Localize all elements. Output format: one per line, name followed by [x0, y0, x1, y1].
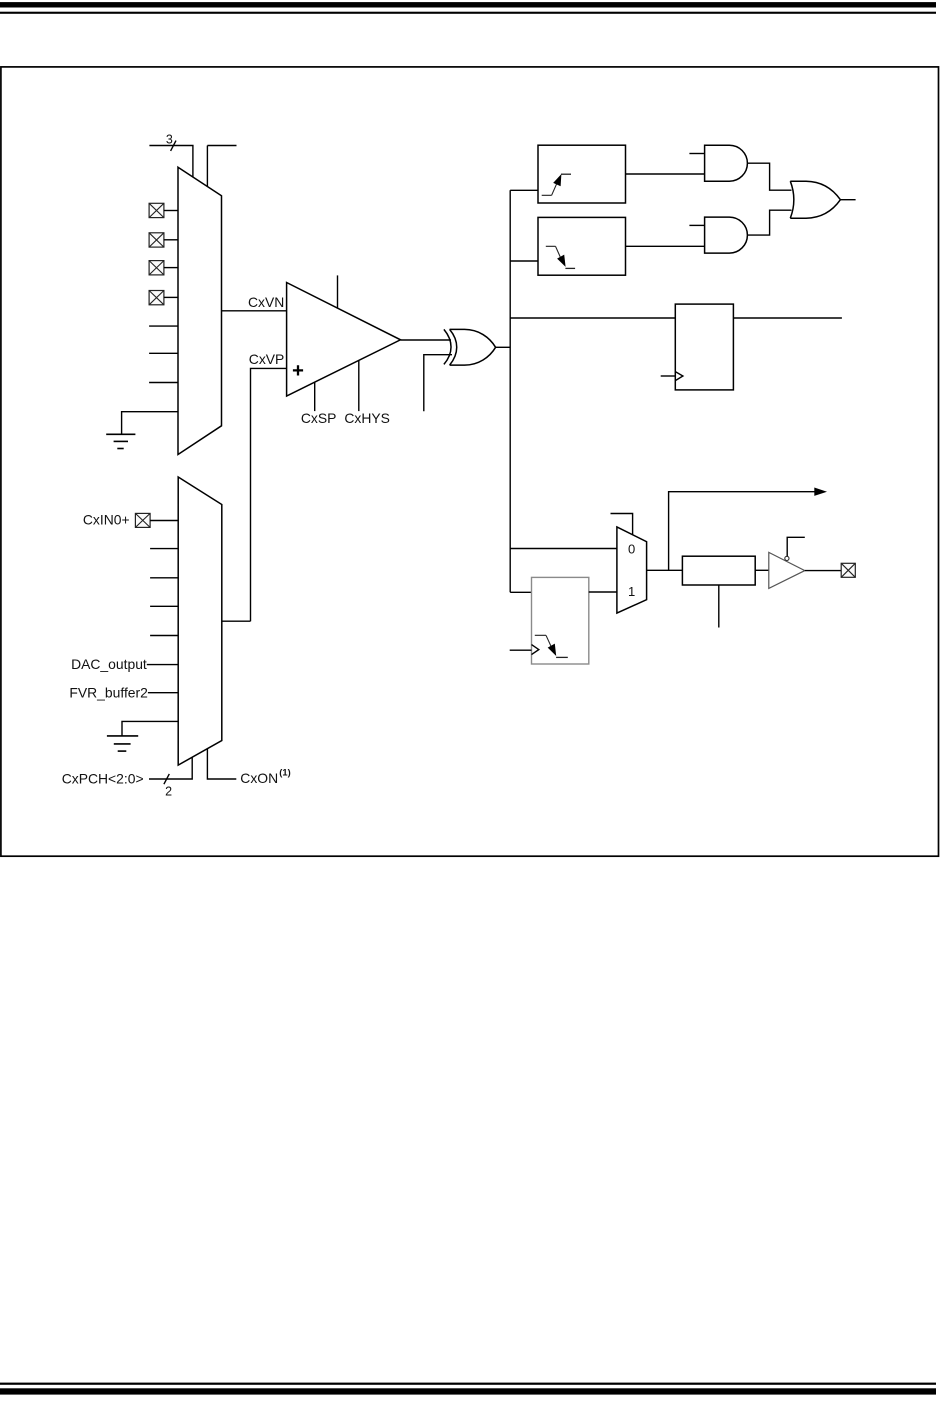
- comparator: [287, 283, 401, 397]
- wire d flip-flop output: [733, 317, 842, 319]
- wire pin 5: [150, 635, 178, 637]
- node CxHYS stub: [358, 360, 360, 411]
- wire bus to rising edge detector: [510, 189, 538, 191]
- d flip-flop: [675, 304, 733, 390]
- svg-text:DAC_output: DAC_output: [71, 656, 147, 672]
- wire bus to latch D input: [510, 591, 531, 593]
- tri-state output buffer: [769, 552, 805, 588]
- latch box: [532, 577, 589, 664]
- rising edge icon: [542, 174, 571, 195]
- wire bus to d flip-flop: [510, 317, 675, 319]
- svg-text:CxIN0+: CxIN0+: [83, 512, 130, 528]
- wire sync mux output: [647, 569, 683, 571]
- wire input 8 to ground: [122, 412, 178, 435]
- xor gate: [444, 329, 496, 365]
- svg-text:2: 2: [165, 785, 172, 799]
- wire CxIN0+ pin: [150, 520, 178, 522]
- falling edge icon: [546, 246, 575, 268]
- ground: [107, 736, 138, 751]
- positive input mux: [178, 477, 222, 765]
- svg-text:CxVN: CxVN: [248, 294, 284, 310]
- wire vertical bus: [509, 190, 511, 592]
- wire buffer output to pad: [805, 570, 841, 572]
- svg-text:CxHYS: CxHYS: [344, 410, 390, 426]
- wire latch output to mux 1 input: [589, 591, 617, 593]
- wire xor lower input: [424, 355, 452, 412]
- wire and2 top stub: [689, 224, 704, 226]
- arrowhead: [814, 488, 827, 496]
- input pad 1: [149, 203, 164, 217]
- wire xor output to bus: [496, 346, 511, 348]
- wire pad3 to mux: [164, 267, 178, 269]
- wire and1 top stub: [689, 153, 704, 155]
- wire FVR_buffer2 pin: [148, 692, 178, 694]
- bus select CxNCH 3-bit into negative-input mux: [149, 141, 236, 187]
- wire input 5: [149, 325, 178, 327]
- svg-text:CxON: CxON: [240, 770, 278, 786]
- wire positive mux output CxVP: [222, 620, 251, 622]
- wire bus to mux 0 input: [510, 548, 617, 550]
- wire CxON: [207, 749, 236, 779]
- buffer enable bubble: [785, 556, 789, 560]
- wire comparator top stub: [337, 275, 339, 308]
- wire buffer enable: [787, 537, 805, 556]
- wire latch clock stub: [510, 649, 532, 651]
- svg-text:3: 3: [166, 132, 173, 146]
- wire pad1 to mux: [164, 210, 178, 212]
- svg-text:0: 0: [628, 541, 635, 556]
- wire to interrupt with arrow: [669, 492, 815, 571]
- wire pin 2: [150, 548, 178, 550]
- svg-text:CxVP: CxVP: [249, 351, 285, 367]
- sync mux: [617, 527, 647, 613]
- node CxSP stub: [314, 382, 316, 411]
- wire d flip-flop clock stub: [661, 375, 676, 377]
- wire box1 output to and1: [626, 173, 705, 175]
- output pad: [841, 563, 855, 577]
- svg-text:CxSP: CxSP: [301, 410, 337, 426]
- wire and1 output to or: [747, 163, 791, 190]
- wire input 7: [149, 382, 178, 384]
- slash CxPCH bus: [164, 774, 169, 784]
- svg-text:FVR_buffer2: FVR_buffer2: [69, 684, 148, 700]
- delay block: [682, 556, 755, 585]
- wire or output: [840, 199, 855, 201]
- wire input 6: [149, 352, 178, 354]
- input pad CxIN0+: [135, 513, 150, 527]
- wire pad2 to mux: [164, 239, 178, 241]
- falling edge detector box: [538, 217, 626, 275]
- wire box2 output to and2: [626, 245, 705, 247]
- wire pin 3: [150, 577, 178, 579]
- latch falling edge icon: [535, 635, 568, 657]
- wire delay block bottom stub: [718, 585, 720, 628]
- svg-text:(1): (1): [279, 767, 290, 777]
- wire DAC_output pin: [147, 664, 178, 666]
- negative input mux: [178, 167, 222, 454]
- svg-text:CxPCH<2:0>: CxPCH<2:0>: [62, 770, 144, 786]
- d flip-flop clock wedge: [675, 372, 683, 381]
- and gate 1: [705, 145, 748, 181]
- rising edge detector box: [538, 145, 626, 203]
- ground: [106, 434, 135, 448]
- wire bus to falling edge detector: [510, 260, 538, 262]
- comparator plus sign: [293, 365, 303, 375]
- wire delay block to buffer: [755, 569, 769, 571]
- and gate 2: [705, 217, 748, 253]
- latch clock wedge: [532, 645, 539, 655]
- wire ground pin: [122, 721, 178, 736]
- wire pad4 to mux: [164, 296, 178, 298]
- wire CxPCH select: [149, 757, 192, 779]
- wire CxVN mux output to comparator: [222, 310, 287, 312]
- wire comparator output to xor: [401, 339, 452, 341]
- or gate: [790, 181, 840, 218]
- svg-text:1: 1: [628, 584, 635, 599]
- wire and2 output to or: [747, 210, 791, 235]
- input pad 3: [149, 261, 164, 275]
- input pad 2: [149, 233, 164, 247]
- wire sync mux select: [611, 514, 633, 535]
- input pad 4: [149, 291, 164, 305]
- wire CxVP into comparator: [251, 368, 287, 621]
- wire pin 4: [150, 605, 178, 607]
